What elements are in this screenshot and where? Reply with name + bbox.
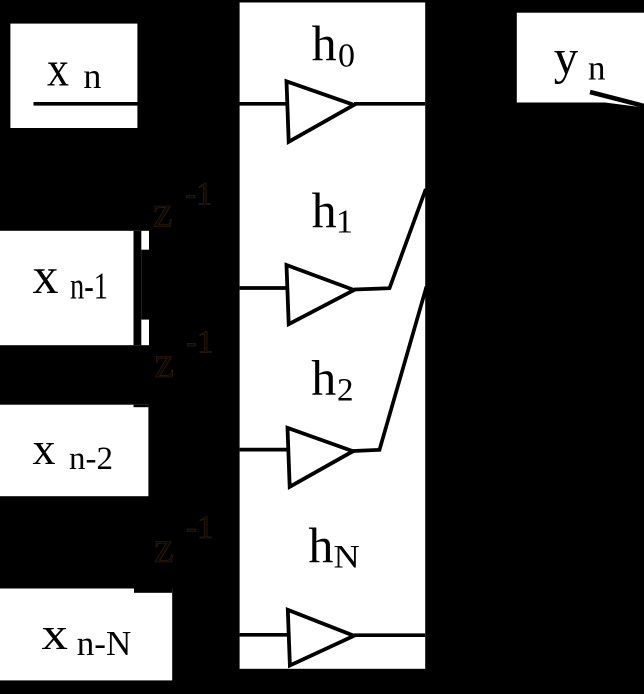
svg-text:-1: -1	[186, 510, 214, 546]
svg-text:x: x	[33, 248, 59, 305]
svg-text:x: x	[33, 423, 56, 474]
svg-text:2: 2	[337, 372, 354, 408]
svg-text:h: h	[312, 15, 337, 71]
svg-text:h: h	[312, 182, 337, 238]
svg-text:n-N: n-N	[77, 624, 131, 663]
svg-text:N: N	[334, 538, 360, 575]
svg-text:z: z	[154, 523, 174, 572]
svg-text:z: z	[153, 187, 173, 236]
svg-text:-1: -1	[185, 177, 213, 213]
svg-text:n-2: n-2	[69, 441, 113, 477]
svg-text:n: n	[588, 48, 606, 87]
svg-text:x: x	[42, 608, 69, 659]
svg-text:x: x	[47, 42, 69, 97]
svg-text:1: 1	[336, 204, 353, 241]
svg-text:h: h	[308, 517, 333, 573]
svg-text:z: z	[155, 338, 175, 387]
svg-text:0: 0	[338, 38, 355, 75]
svg-text:n: n	[83, 56, 101, 96]
svg-text:y: y	[554, 29, 579, 84]
svg-text:-1: -1	[186, 325, 214, 361]
svg-text:n-1: n-1	[70, 266, 108, 308]
svg-text:h: h	[311, 350, 336, 406]
